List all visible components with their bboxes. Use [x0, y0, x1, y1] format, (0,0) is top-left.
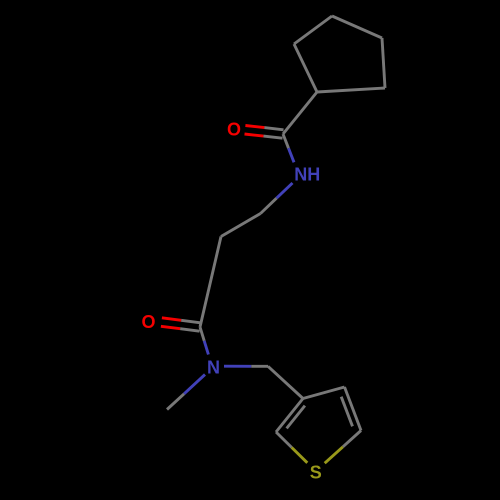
- bond N2-CH2: [224, 365, 251, 368]
- svg-text:N: N: [207, 357, 220, 377]
- thiophene edge C4-C5: [345, 387, 362, 431]
- thiophene edge C3-C2: [276, 399, 303, 433]
- svg-text:O: O: [141, 312, 155, 332]
- wire CH2-thiophene C3: [268, 366, 303, 398]
- thiophene edge C4-C3: [303, 387, 345, 399]
- cyclopentane edge R4-R5: [382, 38, 385, 88]
- thiophene C2=C3 inner line: [287, 406, 305, 429]
- bond S-C5 thiophene: [325, 447, 343, 463]
- bond C2-N2: [200, 327, 204, 341]
- cyclopentane edge R3-R4: [332, 16, 382, 38]
- thiophene C4=C5 inner line: [341, 397, 352, 427]
- amide C2=O2 double bond: [161, 326, 180, 328]
- svg-text:NH: NH: [294, 165, 320, 185]
- svg-text:S: S: [310, 462, 322, 482]
- cyclopentane edge R1-R2: [294, 44, 317, 92]
- bond S-C2 thiophene: [292, 447, 308, 462]
- wire C1-ring: [283, 92, 317, 134]
- wire M1-M2: [221, 214, 261, 237]
- bond N2-methyl: [184, 375, 205, 394]
- svg-text:O: O: [227, 120, 241, 140]
- bond N1-M1: [277, 183, 293, 198]
- amide C1=O1 double bond: [245, 134, 264, 136]
- cyclopentane edge R5-R1: [317, 88, 385, 92]
- bond C1-N1: [283, 134, 289, 148]
- wire M2-C2: [200, 237, 221, 328]
- cyclopentane edge R2-R3: [294, 16, 332, 44]
